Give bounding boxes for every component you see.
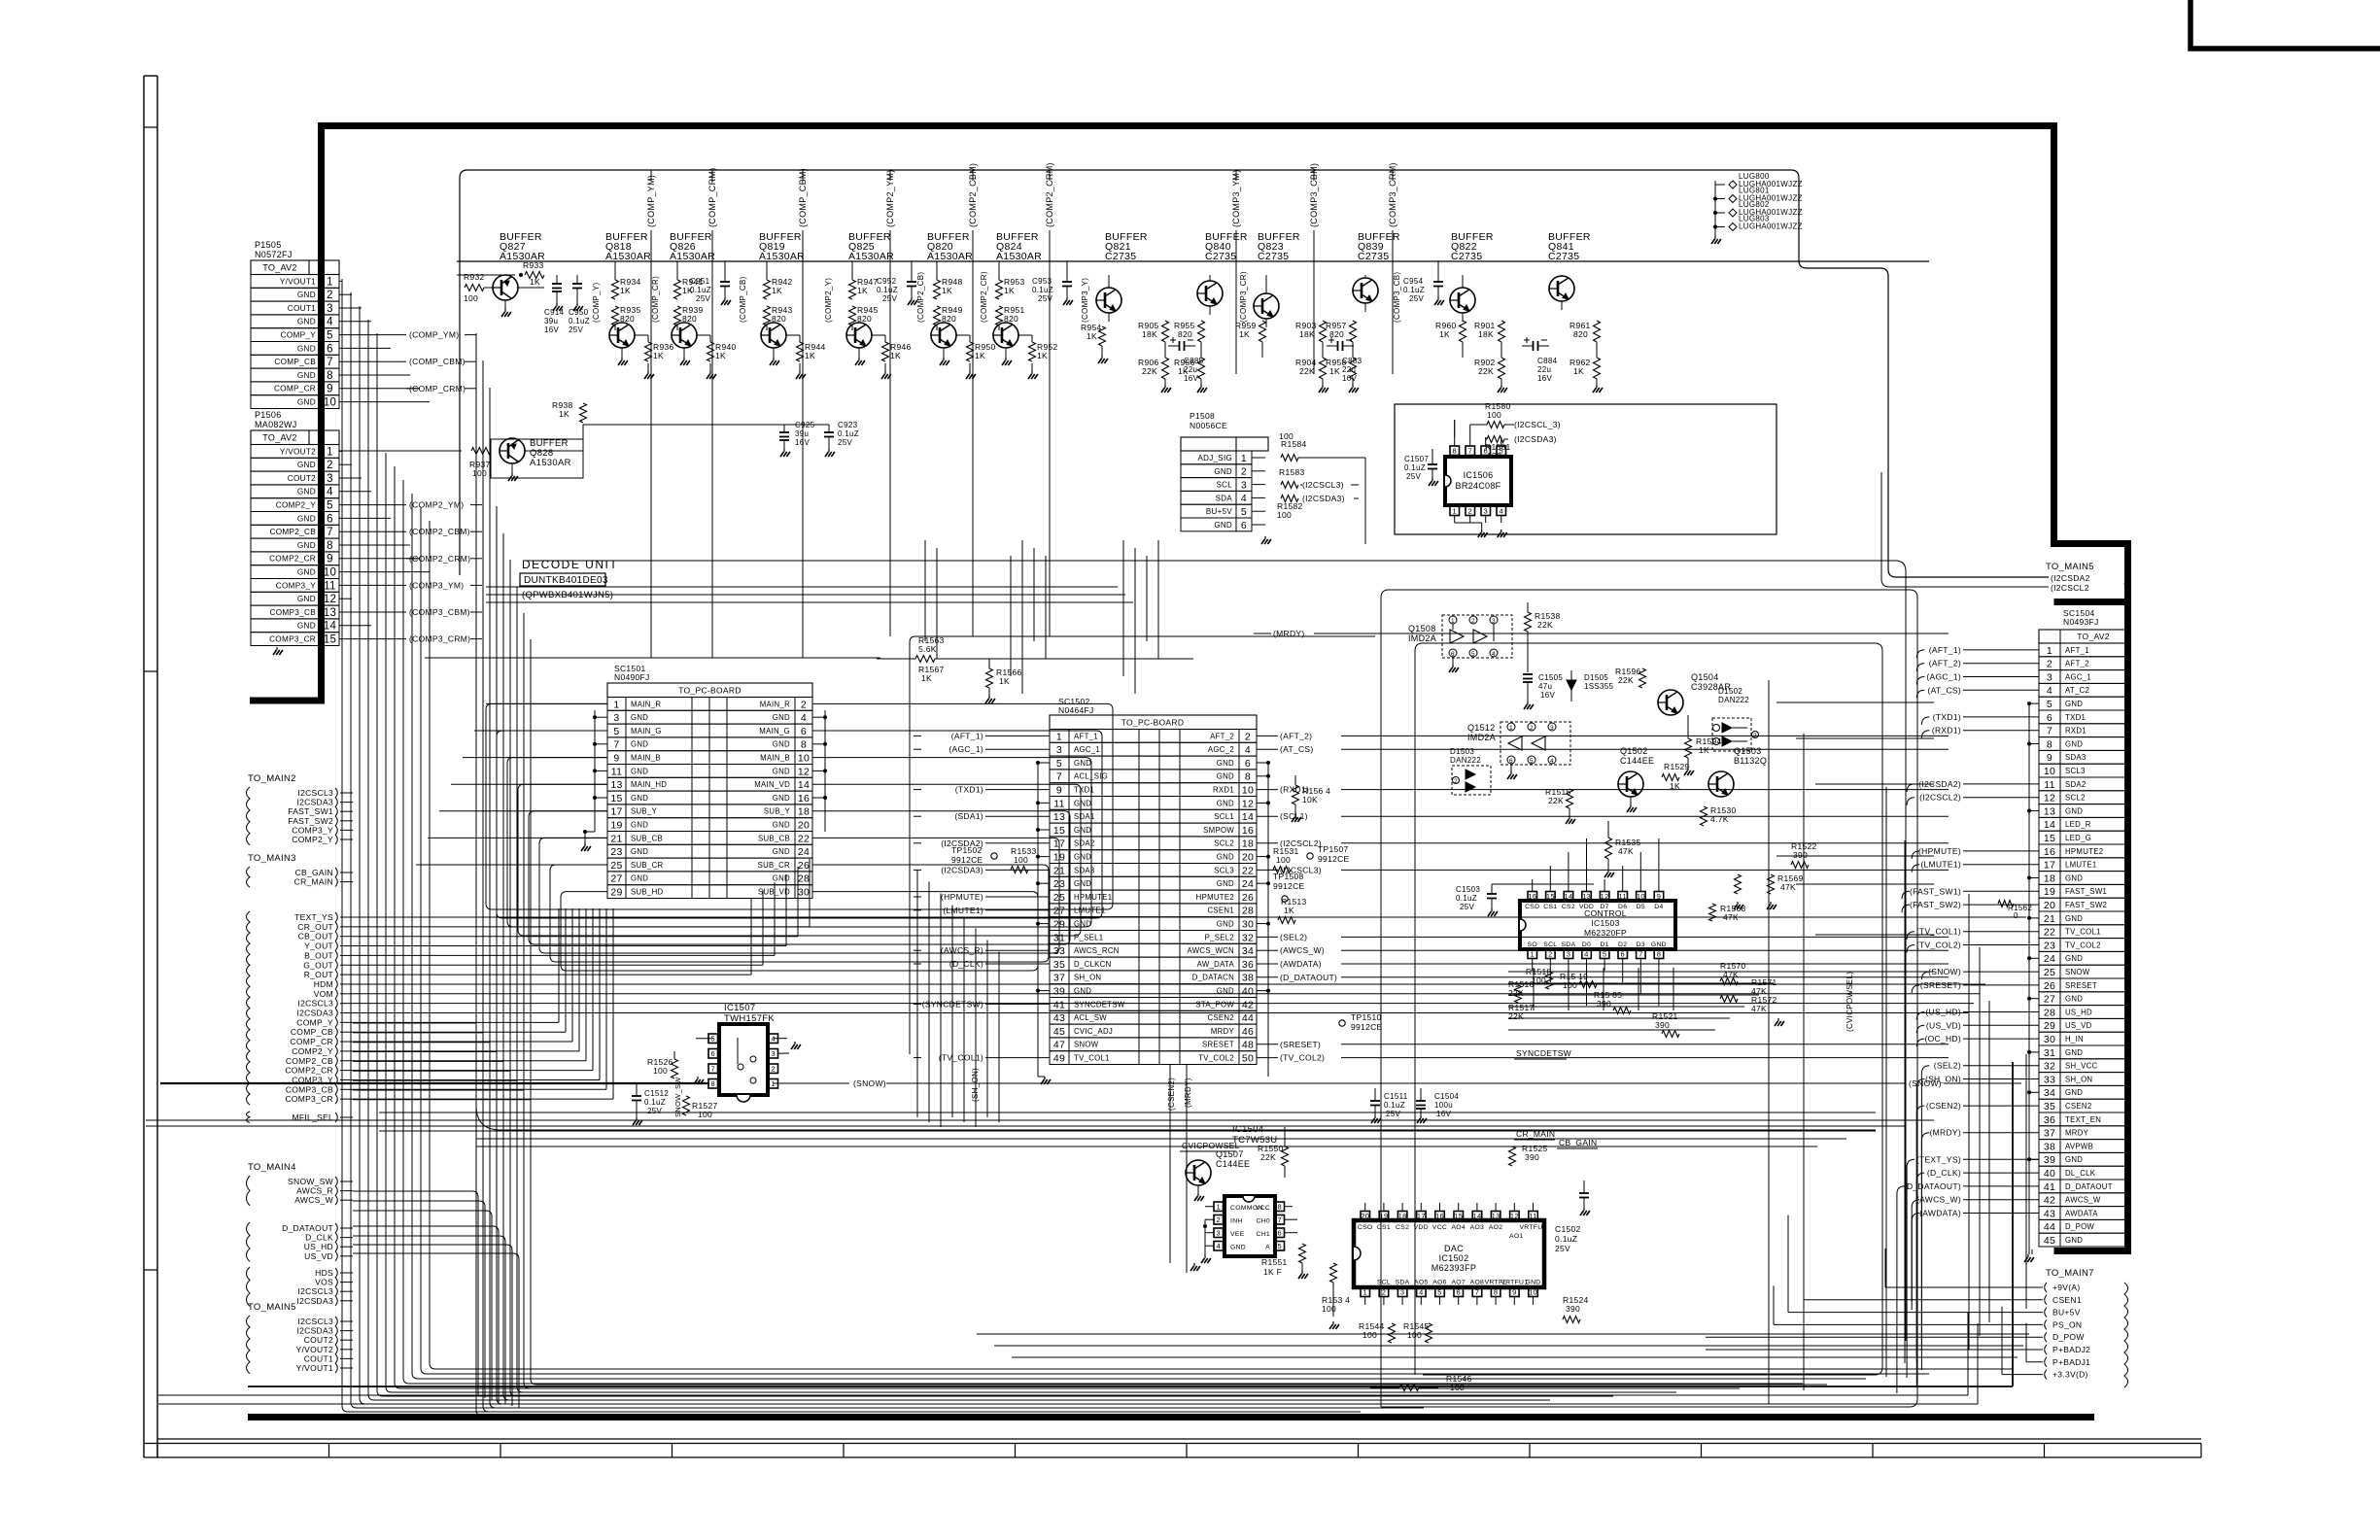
svg-text:SUB_HD: SUB_HD <box>631 888 663 897</box>
svg-text:D_DATAOUT: D_DATAOUT <box>2065 1182 2113 1191</box>
svg-text:I2CSCL3: I2CSCL3 <box>297 1317 333 1326</box>
svg-text:9912CE: 9912CE <box>1318 854 1350 864</box>
svg-text:9: 9 <box>1056 785 1062 797</box>
svg-text:FAST_SW2: FAST_SW2 <box>2065 901 2107 909</box>
svg-text:1K: 1K <box>942 286 952 295</box>
svg-text:100: 100 <box>1563 980 1577 990</box>
svg-text:HPMUTE1: HPMUTE1 <box>1074 893 1112 902</box>
svg-text:22: 22 <box>1242 865 1254 876</box>
svg-text:GND: GND <box>2065 873 2083 882</box>
svg-text:COMP3_Y: COMP3_Y <box>276 581 316 590</box>
svg-text:AFT_2: AFT_2 <box>1210 732 1234 740</box>
svg-text:18K: 18K <box>1142 329 1157 339</box>
svg-text:MAIN_HD: MAIN_HD <box>631 780 667 789</box>
svg-text:(RXD1): (RXD1) <box>1932 726 1961 736</box>
svg-text:SDA: SDA <box>1561 941 1575 948</box>
svg-text:D_POW: D_POW <box>2065 1222 2094 1231</box>
svg-text:GND: GND <box>2065 1048 2083 1057</box>
svg-text:22K: 22K <box>1142 366 1157 376</box>
svg-text:(AWCS_W): (AWCS_W) <box>1280 945 1325 955</box>
svg-text:2: 2 <box>1548 949 1552 958</box>
svg-text:(TV_COL2): (TV_COL2) <box>1280 1053 1325 1063</box>
svg-text:8: 8 <box>327 540 333 552</box>
svg-text:1: 1 <box>1241 453 1247 464</box>
svg-text:4: 4 <box>1245 744 1251 756</box>
svg-text:AFT_2: AFT_2 <box>2065 660 2089 668</box>
svg-text:100: 100 <box>1014 855 1028 865</box>
svg-text:B_OUT: B_OUT <box>304 950 333 960</box>
svg-text:COMP2_CR: COMP2_CR <box>285 1066 333 1076</box>
svg-text:COMP_CR: COMP_CR <box>290 1037 333 1046</box>
svg-text:COMP3_CR: COMP3_CR <box>269 635 316 644</box>
svg-text:25V: 25V <box>569 325 583 334</box>
svg-text:GND: GND <box>2065 995 2083 1004</box>
svg-text:16V: 16V <box>1540 691 1555 700</box>
svg-text:AO4: AO4 <box>1451 1224 1466 1231</box>
svg-text:Y/VOUT2: Y/VOUT2 <box>296 1345 333 1354</box>
svg-text:(US_VD): (US_VD) <box>1926 1020 1961 1030</box>
svg-text:(COMP3_YM): (COMP3_YM) <box>1231 169 1241 227</box>
svg-text:Q1502: Q1502 <box>1620 746 1648 756</box>
svg-text:HDS: HDS <box>315 1268 333 1278</box>
svg-text:38: 38 <box>2044 1141 2055 1152</box>
svg-text:DAC: DAC <box>1444 1244 1464 1253</box>
svg-text:30: 30 <box>798 887 810 899</box>
svg-text:12: 12 <box>1242 798 1254 809</box>
svg-text:2: 2 <box>2047 659 2052 670</box>
svg-text:12: 12 <box>798 766 810 777</box>
svg-text:AO7: AO7 <box>1451 1280 1466 1286</box>
svg-text:11: 11 <box>611 766 623 777</box>
svg-text:3: 3 <box>613 712 619 724</box>
svg-text:GND: GND <box>297 371 316 380</box>
svg-text:1K: 1K <box>715 351 726 360</box>
svg-text:15: 15 <box>324 634 336 646</box>
svg-text:GND: GND <box>773 847 790 856</box>
svg-text:TO_PC-BOARD: TO_PC-BOARD <box>1121 718 1185 728</box>
svg-text:(COMP3_CRM): (COMP3_CRM) <box>1388 162 1397 227</box>
svg-text:32: 32 <box>1242 932 1254 943</box>
svg-text:22K: 22K <box>1537 620 1553 630</box>
svg-text:25: 25 <box>2044 967 2055 978</box>
svg-text:(D_DATAOUT): (D_DATAOUT) <box>1904 1181 1961 1191</box>
svg-text:GND: GND <box>631 767 648 775</box>
svg-text:820: 820 <box>1573 329 1588 339</box>
svg-text:25V: 25V <box>1406 472 1421 481</box>
svg-text:3: 3 <box>1484 506 1488 515</box>
svg-text:9: 9 <box>613 753 619 765</box>
svg-text:32: 32 <box>2044 1061 2055 1073</box>
svg-text:9912CE: 9912CE <box>1273 881 1305 891</box>
svg-text:C2735: C2735 <box>1548 251 1579 262</box>
svg-text:CS1: CS1 <box>1377 1224 1391 1231</box>
svg-text:1: 1 <box>327 276 333 288</box>
svg-text:HPMUTE2: HPMUTE2 <box>2065 847 2103 856</box>
svg-text:3: 3 <box>2047 671 2052 683</box>
svg-text:Q1503: Q1503 <box>1734 746 1762 756</box>
svg-text:0.1uZ: 0.1uZ <box>1555 1234 1577 1244</box>
svg-text:13: 13 <box>1492 1212 1500 1220</box>
svg-text:1K: 1K <box>559 409 569 419</box>
svg-text:6: 6 <box>711 1049 715 1058</box>
svg-text:4: 4 <box>1217 1242 1221 1250</box>
svg-text:9912CE: 9912CE <box>951 855 983 865</box>
svg-text:13: 13 <box>1053 811 1065 823</box>
svg-text:D1503: D1503 <box>1450 747 1474 756</box>
svg-text:1K: 1K <box>530 277 540 287</box>
svg-text:19: 19 <box>2044 886 2055 898</box>
svg-text:I2CSCL3: I2CSCL3 <box>297 788 333 798</box>
svg-text:20: 20 <box>1361 1212 1369 1220</box>
svg-text:C1511: C1511 <box>1384 1092 1408 1101</box>
svg-text:16V: 16V <box>1342 374 1357 383</box>
svg-text:14: 14 <box>1564 892 1572 901</box>
svg-text:(SRESET): (SRESET) <box>1920 980 1961 990</box>
svg-text:(SEL2): (SEL2) <box>1280 932 1307 941</box>
svg-text:1K: 1K <box>772 286 782 295</box>
svg-text:47K: 47K <box>1780 882 1796 892</box>
svg-text:(US_HD): (US_HD) <box>1925 1008 1961 1017</box>
svg-text:SDA3: SDA3 <box>1074 866 1095 874</box>
svg-text:C952: C952 <box>877 277 897 286</box>
svg-text:COMP_Y: COMP_Y <box>296 1017 333 1027</box>
svg-text:CSEN1: CSEN1 <box>1208 907 1235 915</box>
svg-text:8: 8 <box>801 739 807 751</box>
svg-text:DL_CLK: DL_CLK <box>2065 1169 2096 1178</box>
svg-text:8: 8 <box>1278 1202 1282 1211</box>
svg-text:(MRDY): (MRDY) <box>1930 1128 1962 1138</box>
svg-text:(TEXT_YS): (TEXT_YS) <box>1916 1154 1961 1164</box>
svg-text:24: 24 <box>2044 953 2055 965</box>
svg-text:43: 43 <box>1053 1012 1065 1024</box>
svg-text:6: 6 <box>1278 1228 1282 1237</box>
svg-text:SUB_CR: SUB_CR <box>631 861 663 870</box>
svg-text:1K: 1K <box>1037 351 1048 360</box>
svg-text:5: 5 <box>1603 949 1606 958</box>
svg-text:GND: GND <box>1217 759 1234 768</box>
svg-text:(I2CSDA3): (I2CSDA3) <box>1302 494 1345 503</box>
svg-text:D1505: D1505 <box>1584 673 1608 682</box>
svg-text:CSO: CSO <box>1358 1224 1373 1231</box>
svg-text:BU+5V: BU+5V <box>1206 507 1232 516</box>
svg-text:19: 19 <box>1053 852 1065 864</box>
svg-text:(AFT_2): (AFT_2) <box>1280 731 1312 740</box>
svg-text:3: 3 <box>1492 618 1496 625</box>
svg-text:13: 13 <box>1582 892 1591 901</box>
svg-text:GND: GND <box>2065 914 2083 923</box>
svg-text:SDA: SDA <box>1216 494 1233 502</box>
svg-text:GND: GND <box>297 514 316 523</box>
svg-text:47K: 47K <box>1723 912 1739 922</box>
svg-text:1K: 1K <box>1573 366 1584 376</box>
svg-text:AWDATA: AWDATA <box>2065 1209 2098 1217</box>
svg-text:M62320FP: M62320FP <box>1584 928 1627 938</box>
svg-text:16V: 16V <box>544 325 559 334</box>
svg-text:2: 2 <box>1241 466 1247 478</box>
svg-text:(AT_CS): (AT_CS) <box>1927 685 1961 695</box>
svg-text:10: 10 <box>1529 1287 1537 1296</box>
svg-text:R1529: R1529 <box>1664 762 1690 771</box>
svg-text:GND: GND <box>297 595 316 603</box>
svg-text:29: 29 <box>1053 919 1065 931</box>
svg-text:AWCS_WCN: AWCS_WCN <box>1188 946 1234 955</box>
svg-text:C144EE: C144EE <box>1216 1159 1250 1169</box>
svg-text:16: 16 <box>2044 846 2055 858</box>
svg-text:I2CSDA3: I2CSDA3 <box>296 1009 333 1018</box>
svg-text:11: 11 <box>1053 798 1065 809</box>
svg-text:100: 100 <box>1487 451 1501 461</box>
svg-text:28: 28 <box>798 873 810 885</box>
svg-text:24: 24 <box>1242 878 1254 890</box>
svg-text:SDA2: SDA2 <box>2065 780 2087 789</box>
svg-text:C951: C951 <box>690 277 710 286</box>
svg-text:(COMP_CR): (COMP_CR) <box>651 276 660 323</box>
svg-text:1K: 1K <box>1329 366 1340 376</box>
svg-text:31: 31 <box>2044 1047 2055 1059</box>
svg-text:9912CE: 9912CE <box>1351 1022 1383 1032</box>
svg-text:22: 22 <box>798 833 810 844</box>
svg-text:LED_G: LED_G <box>2065 834 2091 842</box>
svg-text:GND: GND <box>297 541 316 550</box>
svg-text:R1583: R1583 <box>1279 467 1305 477</box>
svg-text:TO_AV2: TO_AV2 <box>262 263 296 273</box>
svg-text:20: 20 <box>1242 852 1254 864</box>
svg-text:25V: 25V <box>882 294 897 303</box>
svg-text:2: 2 <box>327 290 333 301</box>
svg-text:(I2CSDA3): (I2CSDA3) <box>1514 434 1557 444</box>
svg-text:C885: C885 <box>1184 357 1204 365</box>
svg-text:R933: R933 <box>523 260 544 270</box>
svg-text:C1502: C1502 <box>1555 1224 1581 1234</box>
svg-text:GND: GND <box>1217 853 1234 862</box>
svg-text:25V: 25V <box>647 1107 662 1115</box>
svg-text:C2735: C2735 <box>1358 251 1389 262</box>
svg-text:N0056CE: N0056CE <box>1190 421 1227 430</box>
svg-text:1K: 1K <box>890 351 901 360</box>
svg-text:(COMP3_CB): (COMP3_CB) <box>1393 272 1401 323</box>
svg-text:6: 6 <box>1457 1287 1461 1296</box>
svg-text:16V: 16V <box>1436 1110 1451 1118</box>
svg-text:Q1508: Q1508 <box>1408 624 1436 633</box>
svg-text:SCL: SCL <box>1543 941 1557 948</box>
svg-text:(D_DATAOUT): (D_DATAOUT) <box>1280 973 1337 982</box>
svg-text:SNOW_SW: SNOW_SW <box>673 1077 682 1117</box>
svg-text:5: 5 <box>1241 506 1247 518</box>
svg-text:GND: GND <box>1074 987 1091 996</box>
svg-text:COUT2: COUT2 <box>288 474 316 483</box>
svg-text:1: 1 <box>1217 1202 1221 1211</box>
svg-text:4: 4 <box>2047 685 2052 697</box>
svg-text:AO5: AO5 <box>1414 1280 1429 1286</box>
svg-text:100: 100 <box>1277 510 1292 520</box>
svg-text:GND: GND <box>2065 1088 2083 1097</box>
svg-text:(AWCS_W): (AWCS_W) <box>1916 1195 1961 1205</box>
svg-text:23: 23 <box>1053 878 1065 890</box>
svg-text:COMP_CB: COMP_CB <box>274 358 316 366</box>
svg-text:AO8: AO8 <box>1470 1280 1485 1286</box>
svg-text:12: 12 <box>2044 793 2055 804</box>
svg-text:CSD: CSD <box>1525 904 1539 910</box>
svg-text:SCL: SCL <box>1377 1280 1391 1286</box>
svg-text:5: 5 <box>1471 651 1475 658</box>
svg-text:AO1: AO1 <box>1509 1233 1524 1240</box>
svg-text:0.1uZ: 0.1uZ <box>569 317 590 325</box>
svg-text:SDA: SDA <box>1396 1280 1410 1286</box>
svg-text:AO2: AO2 <box>1489 1224 1503 1231</box>
svg-text:C925: C925 <box>795 421 815 429</box>
svg-text:16: 16 <box>1435 1212 1444 1220</box>
svg-text:CB_OUT: CB_OUT <box>298 932 333 941</box>
svg-text:13: 13 <box>610 779 622 791</box>
svg-text:(AFT_1): (AFT_1) <box>951 731 983 740</box>
svg-text:15: 15 <box>1053 825 1065 837</box>
svg-text:GND: GND <box>297 318 316 326</box>
svg-text:7: 7 <box>613 739 619 751</box>
svg-text:29: 29 <box>610 887 622 899</box>
svg-text:CSEN2: CSEN2 <box>2065 1102 2092 1111</box>
svg-text:D0: D0 <box>1582 941 1591 948</box>
svg-text:4.7K: 4.7K <box>1710 814 1729 824</box>
svg-text:TP1510: TP1510 <box>1351 1012 1382 1022</box>
svg-text:ACL_SIG: ACL_SIG <box>1074 772 1108 781</box>
svg-text:100: 100 <box>472 468 487 478</box>
svg-text:TP1507: TP1507 <box>1318 844 1349 854</box>
svg-text:(FAST_SW1): (FAST_SW1) <box>1910 886 1961 896</box>
svg-text:4: 4 <box>1500 506 1503 515</box>
svg-text:C2735: C2735 <box>1105 251 1136 262</box>
svg-text:4: 4 <box>327 317 333 328</box>
svg-text:39u: 39u <box>544 317 558 325</box>
svg-text:22K: 22K <box>1299 366 1315 376</box>
svg-text:(COMP_CB): (COMP_CB) <box>739 276 747 323</box>
svg-text:SRESET: SRESET <box>1202 1041 1234 1049</box>
svg-text:(CSEN2): (CSEN2) <box>1167 1078 1176 1111</box>
svg-text:27: 27 <box>610 873 622 885</box>
svg-text:11: 11 <box>2044 779 2055 791</box>
svg-text:G_OUT: G_OUT <box>303 960 333 970</box>
svg-text:(COMP3_YM): (COMP3_YM) <box>409 580 464 590</box>
svg-text:17: 17 <box>1417 1212 1426 1220</box>
svg-text:TO_AV2: TO_AV2 <box>2077 632 2110 641</box>
svg-text:INH: INH <box>1230 1218 1243 1225</box>
svg-text:(OC_HD): (OC_HD) <box>1924 1034 1961 1044</box>
svg-text:14: 14 <box>1242 811 1254 823</box>
svg-text:(TXD1): (TXD1) <box>1933 712 1961 722</box>
svg-text:100: 100 <box>1450 1383 1465 1392</box>
svg-text:GND: GND <box>631 821 648 830</box>
svg-text:6: 6 <box>1451 651 1455 658</box>
svg-text:30: 30 <box>2044 1034 2055 1045</box>
svg-text:3: 3 <box>1400 1287 1404 1296</box>
svg-text:2: 2 <box>1753 733 1757 739</box>
svg-text:D_DATACN: D_DATACN <box>1192 974 1234 982</box>
svg-text:(CVICPOWSEL): (CVICPOWSEL) <box>1845 972 1854 1032</box>
svg-text:820: 820 <box>1178 329 1192 339</box>
svg-text:(COMP_CBM): (COMP_CBM) <box>798 168 808 227</box>
svg-text:1K: 1K <box>805 351 815 360</box>
svg-text:SUB_CB: SUB_CB <box>631 834 663 842</box>
svg-text:10: 10 <box>2044 766 2055 777</box>
svg-text:(COMP3_CBM): (COMP3_CBM) <box>1309 163 1319 227</box>
svg-text:18K: 18K <box>1478 329 1494 339</box>
svg-text:390: 390 <box>1566 1304 1580 1314</box>
svg-text:1K: 1K <box>921 673 932 683</box>
svg-text:DAN222: DAN222 <box>1718 696 1749 704</box>
svg-text:10: 10 <box>1637 892 1645 901</box>
svg-text:30: 30 <box>1242 919 1254 931</box>
svg-text:P_SEL1: P_SEL1 <box>1074 933 1103 941</box>
svg-text:(COMP3_Y): (COMP3_Y) <box>1081 278 1089 323</box>
svg-text:C883: C883 <box>1342 357 1362 365</box>
svg-text:US_HD: US_HD <box>304 1242 333 1251</box>
svg-text:5: 5 <box>327 330 333 342</box>
svg-text:C1512: C1512 <box>644 1089 669 1098</box>
svg-text:25V: 25V <box>696 294 710 303</box>
svg-text:1SS355: 1SS355 <box>1584 682 1614 691</box>
svg-text:1: 1 <box>327 446 333 458</box>
svg-text:Q1512: Q1512 <box>1467 723 1496 733</box>
svg-text:IC1502: IC1502 <box>1439 1253 1469 1263</box>
svg-text:4: 4 <box>1550 758 1554 765</box>
svg-text:GND: GND <box>631 713 648 722</box>
svg-text:2: 2 <box>772 1064 776 1073</box>
svg-text:VCC: VCC <box>1432 1224 1447 1231</box>
svg-text:SH_ON: SH_ON <box>1074 974 1101 982</box>
svg-text:28: 28 <box>2044 1007 2055 1018</box>
svg-text:8: 8 <box>1657 949 1661 958</box>
svg-text:(COMP2_CBM): (COMP2_CBM) <box>968 163 978 227</box>
svg-text:LMUTE1: LMUTE1 <box>2065 861 2097 870</box>
svg-text:3: 3 <box>327 473 333 485</box>
svg-text:100: 100 <box>1362 1330 1377 1340</box>
svg-text:M62393FP: M62393FP <box>1431 1263 1476 1273</box>
svg-text:GND: GND <box>1074 799 1091 807</box>
svg-text:C2735: C2735 <box>1205 251 1236 262</box>
svg-text:1K F: 1K F <box>1263 1267 1282 1277</box>
svg-text:CS1: CS1 <box>1543 904 1557 910</box>
svg-text:AGC_2: AGC_2 <box>1208 745 1234 754</box>
svg-text:(COMP3_CR): (COMP3_CR) <box>1239 271 1248 323</box>
svg-text:26: 26 <box>1242 892 1254 904</box>
svg-text:VDD: VDD <box>1414 1224 1429 1231</box>
svg-text:43: 43 <box>2044 1208 2055 1219</box>
svg-text:1: 1 <box>1531 949 1535 958</box>
svg-text:AWCS_W: AWCS_W <box>294 1195 333 1205</box>
svg-text:31: 31 <box>1053 932 1065 943</box>
svg-text:2: 2 <box>327 460 333 471</box>
svg-text:CSEN2: CSEN2 <box>1208 1013 1235 1022</box>
svg-text:39: 39 <box>1053 986 1065 998</box>
svg-text:TP1502: TP1502 <box>951 845 983 855</box>
svg-text:D_POW: D_POW <box>2052 1332 2085 1342</box>
svg-text:GND: GND <box>631 740 648 749</box>
svg-text:17: 17 <box>610 806 622 818</box>
svg-text:41: 41 <box>2044 1181 2055 1193</box>
svg-text:6: 6 <box>1621 949 1625 958</box>
svg-text:21: 21 <box>610 833 622 844</box>
svg-text:VOS: VOS <box>315 1278 333 1287</box>
svg-text:9: 9 <box>2047 752 2052 764</box>
svg-text:7: 7 <box>1638 949 1642 958</box>
svg-text:3: 3 <box>772 1049 776 1058</box>
svg-text:22K: 22K <box>1478 366 1494 376</box>
svg-text:12: 12 <box>324 594 336 605</box>
svg-text:2: 2 <box>1454 778 1458 785</box>
svg-text:1: 1 <box>1509 725 1513 732</box>
svg-text:Y/VOUT1: Y/VOUT1 <box>296 1363 333 1373</box>
svg-text:GND: GND <box>1214 467 1232 476</box>
svg-text:CS2: CS2 <box>1562 904 1575 910</box>
